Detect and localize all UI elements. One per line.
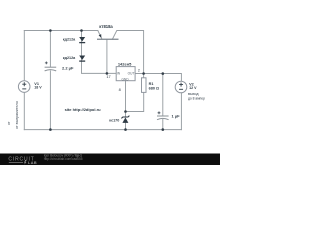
svg-text:от выпрямителя: от выпрямителя — [15, 101, 19, 129]
svg-text:OUT: OUT — [128, 72, 135, 76]
svg-text:R1: R1 — [149, 82, 154, 86]
svg-text:site http://2dipol.ru: site http://2dipol.ru — [65, 107, 102, 112]
svg-text:LAB: LAB — [28, 161, 37, 165]
svg-text:кс170: кс170 — [109, 119, 119, 123]
svg-text:GND: GND — [121, 77, 129, 81]
svg-text:2: 2 — [138, 68, 140, 72]
svg-text:18 V: 18 V — [34, 86, 42, 90]
svg-text:http://circuitlab.com/cad655: http://circuitlab.com/cad655 — [44, 157, 83, 161]
svg-text:17: 17 — [106, 74, 110, 79]
svg-text:12 V: 12 V — [189, 86, 197, 90]
svg-text:кд212а: кд212а — [63, 38, 76, 42]
svg-text:выход: выход — [188, 92, 199, 96]
svg-text:от: от — [7, 121, 11, 125]
svg-text:8: 8 — [119, 87, 121, 92]
svg-text:142ен5: 142ен5 — [118, 62, 132, 67]
svg-text:2.2 µF: 2.2 µF — [62, 65, 74, 70]
svg-text:до 8 ампер: до 8 ампер — [188, 96, 205, 100]
svg-text:кт818а: кт818а — [99, 24, 113, 29]
svg-text:680 Ω: 680 Ω — [149, 86, 159, 90]
svg-text:кд212а: кд212а — [63, 56, 76, 60]
svg-text:1 µF: 1 µF — [172, 113, 181, 118]
